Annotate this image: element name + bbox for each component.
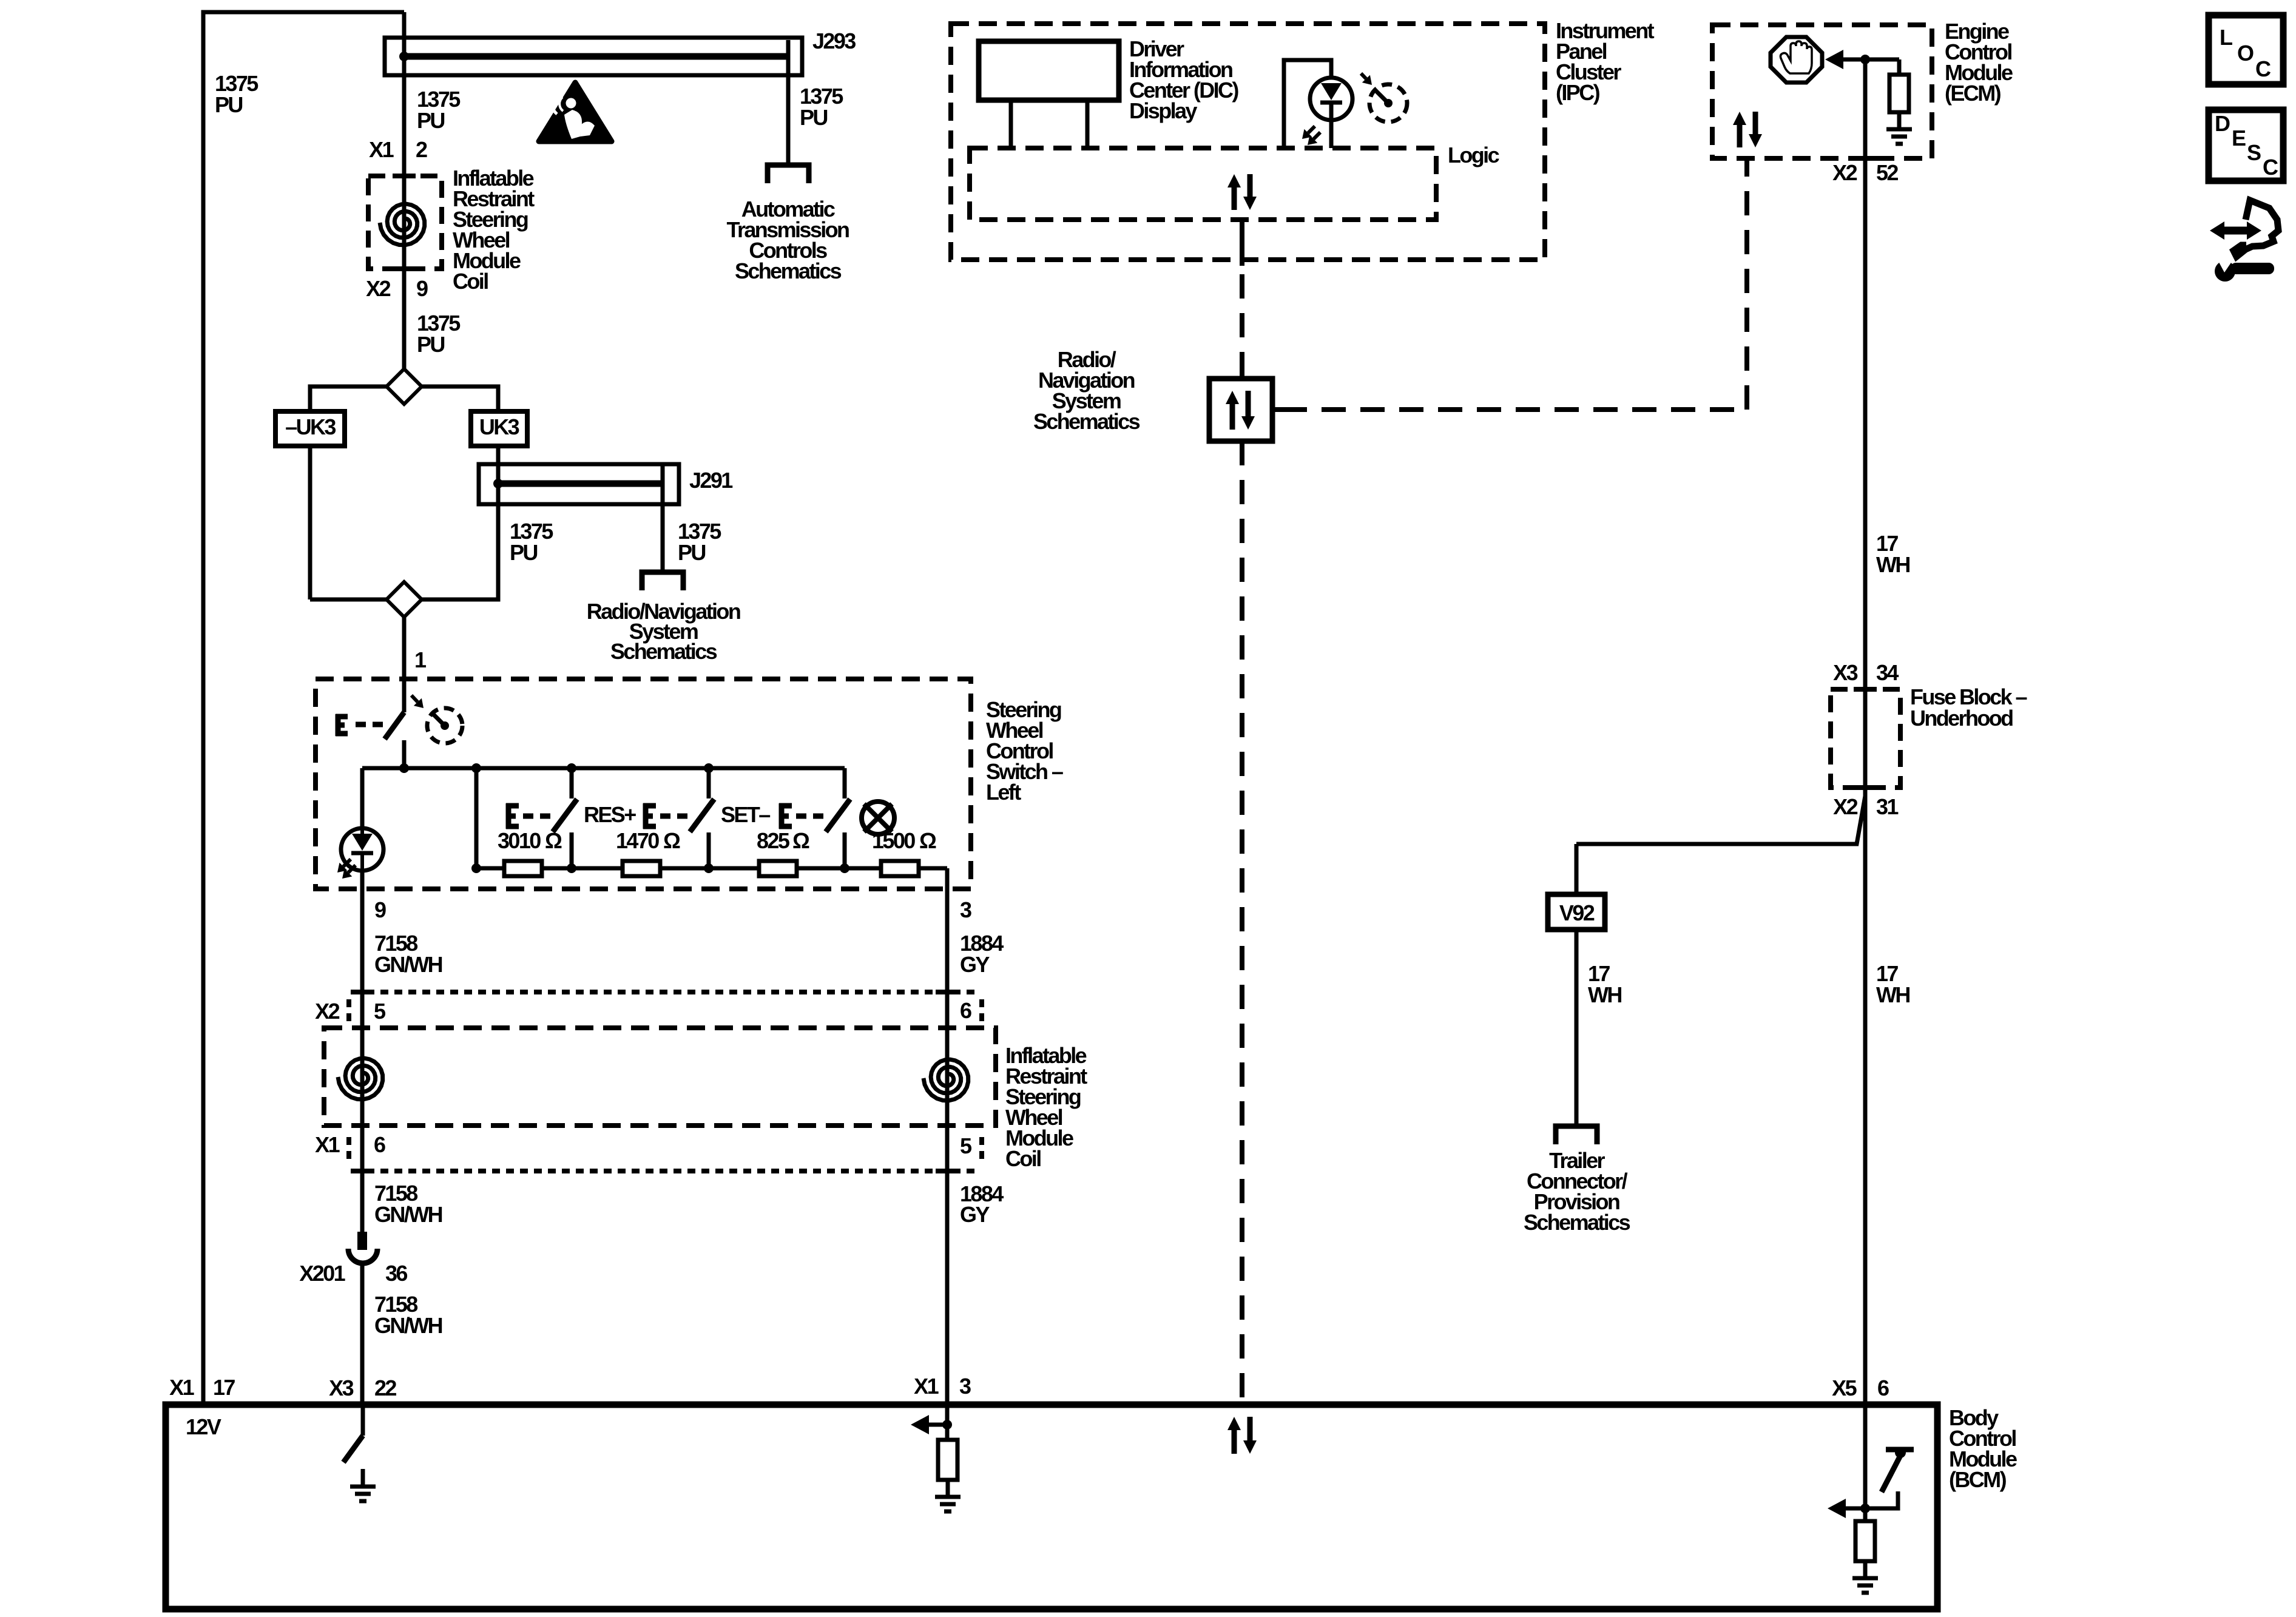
master switch dashed actuator link <box>356 722 383 727</box>
junction dot on J291 bus <box>493 479 503 488</box>
svg-text:2: 2 <box>416 137 427 162</box>
master switch blade <box>385 712 404 739</box>
junction dot bottom RES <box>567 863 576 873</box>
svg-text:X1: X1 <box>315 1132 340 1157</box>
wire: left leg into diamond B <box>310 598 387 602</box>
serial data dashed horizontal to ECM <box>1283 407 1747 412</box>
wire: 1375 PU feed, top-left corner run <box>203 12 404 1405</box>
off-page connector: Automatic Transmission Controls <box>768 165 809 183</box>
svg-text:52: 52 <box>1876 160 1898 185</box>
svg-text:825: 825 <box>757 828 790 853</box>
resistor 1470 ohm <box>623 861 660 876</box>
svg-text:C: C <box>2255 56 2271 81</box>
instrument panel cluster dashed box <box>951 24 1545 260</box>
svg-text:3: 3 <box>960 897 971 922</box>
svg-text:3010: 3010 <box>498 828 541 853</box>
BCM ground switch (X3-22) <box>361 1405 365 1436</box>
logic dashed box <box>970 148 1436 220</box>
svg-text:C: C <box>2263 155 2278 180</box>
svg-text:Left: Left <box>986 780 1021 805</box>
svg-text:GN/WH: GN/WH <box>374 1313 442 1338</box>
serial data dashed (IPC to data box) <box>1240 274 1244 379</box>
BCM switch pivot bar <box>1886 1447 1914 1453</box>
wire: rail to LED <box>360 768 365 829</box>
diagnostic icon: wrench <box>2215 261 2235 282</box>
svg-text:S: S <box>2247 140 2261 165</box>
tick ECM bottom <box>1854 156 1877 161</box>
svg-text:6: 6 <box>374 1132 385 1157</box>
wire: J293 tap to automatic transmission reference <box>786 40 791 165</box>
svg-text:UK3: UK3 <box>479 414 519 439</box>
svg-text:5: 5 <box>960 1133 972 1158</box>
ECM up/down arrows <box>1740 112 1755 147</box>
serial data solid stub below logic <box>1240 220 1244 266</box>
svg-text:WH: WH <box>1876 552 1909 577</box>
svg-text:12V: 12V <box>186 1414 221 1439</box>
svg-text:PU: PU <box>800 105 827 130</box>
wire: -UK3 leg to diamond B <box>308 446 312 599</box>
svg-text:X2: X2 <box>1833 794 1857 819</box>
svg-text:–UK3: –UK3 <box>285 414 336 439</box>
wire: diamond A horizontal distribution <box>310 387 498 411</box>
svg-text:Display: Display <box>1129 98 1197 123</box>
svg-text:34: 34 <box>1876 660 1899 685</box>
wire: BCM X1-3 internal <box>945 1405 950 1440</box>
tick pin5 right <box>936 1169 959 1173</box>
svg-text:PU: PU <box>510 540 537 565</box>
tick BCM X5-6 <box>1854 1402 1877 1407</box>
resistor rail <box>476 866 947 871</box>
svg-text:9: 9 <box>416 276 428 301</box>
svg-text:X2: X2 <box>315 999 339 1024</box>
wire: 1884 GY to BCM <box>945 1171 950 1405</box>
IPC indicator LED <box>1310 78 1352 148</box>
svg-text:PU: PU <box>417 108 444 133</box>
svg-text:Schematics: Schematics <box>610 639 717 664</box>
IPC indicator LED loop wire <box>1284 60 1331 148</box>
svg-text:(IPC): (IPC) <box>1556 80 1600 105</box>
switch top rail <box>362 766 845 771</box>
diagnostic icon: component outline <box>2234 200 2278 257</box>
svg-text:J291: J291 <box>689 468 733 493</box>
svg-text:PU: PU <box>215 92 242 117</box>
svg-text:1: 1 <box>414 647 427 672</box>
wire: ECM pull-up leg <box>1897 59 1902 75</box>
svg-text:9: 9 <box>374 897 386 922</box>
svg-text:X5: X5 <box>1832 1376 1857 1400</box>
svg-text:31: 31 <box>1876 794 1899 819</box>
wire: to X201 <box>360 1171 365 1232</box>
svg-text:X1: X1 <box>169 1375 194 1400</box>
BCM pull-down resistor (X5-6) <box>1855 1521 1875 1561</box>
logic up/down arrows <box>1234 174 1250 210</box>
tick X2-5 <box>351 990 374 994</box>
svg-text:PU: PU <box>678 540 705 565</box>
diagnostic icon: double arrow <box>2222 227 2249 235</box>
wire: V92 to trailer ref <box>1575 930 1579 1126</box>
steering wheel control switch dashed box <box>316 679 971 889</box>
splice diamond A <box>387 369 422 404</box>
wire: right leg into diamond B <box>422 484 498 599</box>
svg-text:PU: PU <box>417 332 444 357</box>
BCM resistor ground (X1-3) <box>935 1480 961 1511</box>
clockspring coil (lower right) <box>923 1059 968 1101</box>
svg-text:RES+: RES+ <box>584 802 636 827</box>
junction dot switch RES <box>567 763 576 773</box>
wire through lower module right <box>945 992 950 1171</box>
BCM switch pivot dot <box>1895 1447 1906 1458</box>
serial data dashed vertical to ECM <box>1744 158 1749 410</box>
svg-text:3: 3 <box>959 1374 971 1399</box>
junction dot switch SET <box>704 763 714 773</box>
arrow to cruise gauge <box>411 695 417 702</box>
BCM signal arrow (X1-3) <box>911 1415 929 1434</box>
wire: drop from J293 splice to steering coil and diamond A <box>402 12 407 369</box>
inflatable restraint steering wheel module coil (upper) dashed box <box>368 176 442 269</box>
wire: J291 tap down <box>661 466 665 572</box>
svg-text:X1: X1 <box>369 137 394 162</box>
tick X1-6 <box>351 1169 374 1173</box>
svg-text:Coil: Coil <box>1005 1146 1041 1171</box>
option box UK3 <box>471 411 527 446</box>
tick BCM X1-17 <box>192 1402 215 1407</box>
splice pack J291 (bus bar) <box>479 464 679 504</box>
serial data interface box <box>1209 379 1272 441</box>
junction dot rail/blade <box>399 763 409 773</box>
BCM switch blade <box>1882 1456 1900 1492</box>
svg-text:Schematics: Schematics <box>1524 1210 1630 1235</box>
splice pack J293 (bus bar) <box>385 38 802 75</box>
resistor 1500 ohm <box>881 861 919 876</box>
wire: UK3 leg into J291 <box>496 446 501 484</box>
junction dot BCM X1-3 <box>942 1420 952 1430</box>
wire: rail exit to pin 3 <box>945 868 950 994</box>
ECM resistor ground <box>1886 112 1912 144</box>
svg-text:Schematics: Schematics <box>735 258 842 283</box>
wire branch 0 (to resistor rail) <box>474 768 479 868</box>
wire: X201 to BCM <box>360 1266 365 1405</box>
switch (RES+ branch) <box>707 768 711 798</box>
svg-text:(ECM): (ECM) <box>1945 81 2001 106</box>
resistor 825 ohm <box>759 861 797 876</box>
svg-text:Logic: Logic <box>1448 143 1499 167</box>
cruise gauge symbol <box>427 708 462 743</box>
svg-text:X2: X2 <box>366 276 390 301</box>
tick BCM X3-22 <box>351 1402 374 1407</box>
svg-text:6: 6 <box>1877 1376 1889 1400</box>
svg-text:36: 36 <box>385 1261 407 1286</box>
junction dot on J293 bus <box>399 52 409 61</box>
DIC display box <box>979 41 1119 100</box>
V92 box <box>1548 894 1605 930</box>
tick BCM X1-3 <box>936 1402 959 1407</box>
wire: diamond B to steering wheel control switch pin 1 <box>402 617 407 712</box>
svg-text:5: 5 <box>374 999 386 1024</box>
coil module (lower) connector boundary X2 dotted <box>353 990 979 994</box>
illumination LED <box>341 828 383 871</box>
serial data stub right of box <box>1272 407 1283 412</box>
BCM ground (X3-22) <box>350 1470 376 1501</box>
svg-text:V92: V92 <box>1559 900 1595 925</box>
BCM signal arrow (X5-6) <box>1828 1499 1846 1518</box>
svg-text:Ω: Ω <box>919 828 936 853</box>
clockspring coil (upper) <box>380 204 425 245</box>
coil module (lower) connector boundary X1 dotted <box>353 1169 979 1173</box>
junction dot rail corner <box>471 863 481 873</box>
junction dot ECM <box>1860 55 1870 64</box>
tick pin6 right <box>936 990 959 994</box>
svg-text:WH: WH <box>1876 982 1909 1007</box>
svg-text:Ω: Ω <box>792 828 809 853</box>
svg-text:L: L <box>2220 25 2232 50</box>
off-page connector: Trailer <box>1556 1126 1597 1144</box>
tick fuse top <box>1854 687 1877 692</box>
junction dot bottom lamp branch <box>840 863 849 873</box>
wire: blade to rail junction <box>402 740 407 768</box>
inflatable restraint steering wheel module coil (lower) dashed box <box>324 1028 996 1126</box>
svg-text:GN/WH: GN/WH <box>374 1202 442 1227</box>
wire: V92 branch <box>1576 796 1865 844</box>
svg-text:Underhood: Underhood <box>1910 706 2013 731</box>
ECM pull-up resistor <box>1889 75 1909 112</box>
svg-text:X201: X201 <box>299 1261 345 1286</box>
splice diamond B <box>387 582 422 617</box>
body control module box <box>166 1405 1937 1609</box>
svg-text:X1: X1 <box>914 1374 939 1399</box>
svg-text:17: 17 <box>213 1375 235 1400</box>
connector tick X1-2 <box>393 174 416 178</box>
junction dot branch 0 <box>471 763 481 773</box>
BCM pull-down resistor (X1-3) <box>938 1440 957 1480</box>
BCM switch contact stub <box>1865 1491 1898 1508</box>
ECM signal arrow <box>1825 50 1843 69</box>
svg-text:Schematics: Schematics <box>1033 409 1140 434</box>
svg-text:X3: X3 <box>1833 660 1857 685</box>
wire: BCM X5-6 internal <box>1863 1405 1868 1521</box>
svg-text:1470: 1470 <box>616 828 659 853</box>
svg-text:1500: 1500 <box>872 828 915 853</box>
junction dot bottom SET <box>704 863 714 873</box>
svg-text:X3: X3 <box>329 1376 353 1400</box>
svg-text:Ω: Ω <box>545 828 562 853</box>
svg-text:GY: GY <box>960 952 990 977</box>
svg-text:O: O <box>2237 41 2254 66</box>
svg-text:GY: GY <box>960 1202 990 1227</box>
inline connector X201 symbol <box>357 1232 367 1250</box>
lamp symbol (on/off) <box>862 802 894 834</box>
svg-text:GN/WH: GN/WH <box>374 952 442 977</box>
svg-text:E: E <box>2232 126 2246 150</box>
option box -UK3 <box>275 411 345 446</box>
ECM stop hand octagon <box>1771 37 1822 83</box>
BCM resistor ground (X5-6) <box>1852 1561 1878 1593</box>
svg-text:22: 22 <box>374 1376 396 1400</box>
fuse block underhood dashed box <box>1831 689 1900 788</box>
serial data dashed (data box to BCM) <box>1240 441 1244 1405</box>
engine control module dashed box <box>1712 25 1932 158</box>
clockspring coil (lower left) <box>338 1058 383 1099</box>
BCM serial up/down arrows <box>1234 1417 1250 1454</box>
junction dot BCM X5-6 <box>1860 1504 1870 1513</box>
svg-text:WH: WH <box>1588 982 1621 1007</box>
wire: ECM X2-52 main vertical <box>1863 59 1868 1405</box>
svg-text:Ω: Ω <box>663 828 680 853</box>
airbag warning triangle <box>539 83 612 141</box>
connector tick X2-9 <box>393 266 416 271</box>
tick fuse bottom <box>1854 785 1877 790</box>
switch (3010 ohm branch) <box>570 768 574 798</box>
svg-text:SET–: SET– <box>721 802 770 827</box>
svg-text:X2: X2 <box>1832 160 1857 185</box>
LOC legend box <box>2209 15 2283 84</box>
wire through lower module left <box>360 992 365 1171</box>
off-page connector: Radio/Navigation (J291 tap) <box>642 572 683 590</box>
svg-text:6: 6 <box>960 998 971 1023</box>
master switch actuator E <box>336 714 348 736</box>
DESC legend box <box>2209 110 2283 181</box>
svg-text:D: D <box>2215 111 2230 136</box>
switch (SET- branch, rail end) <box>843 768 847 798</box>
resistor 3010 ohm <box>504 861 542 876</box>
arrow to IPC gauge <box>1361 73 1366 79</box>
svg-text:J293: J293 <box>812 29 856 53</box>
svg-text:Coil: Coil <box>453 269 488 294</box>
wire: LED to box exit <box>360 870 365 994</box>
DIC legs <box>1011 100 1087 148</box>
wire: V92 feed <box>1575 844 1579 894</box>
svg-text:(BCM): (BCM) <box>1949 1467 2007 1492</box>
IPC gauge symbol <box>1369 84 1407 122</box>
